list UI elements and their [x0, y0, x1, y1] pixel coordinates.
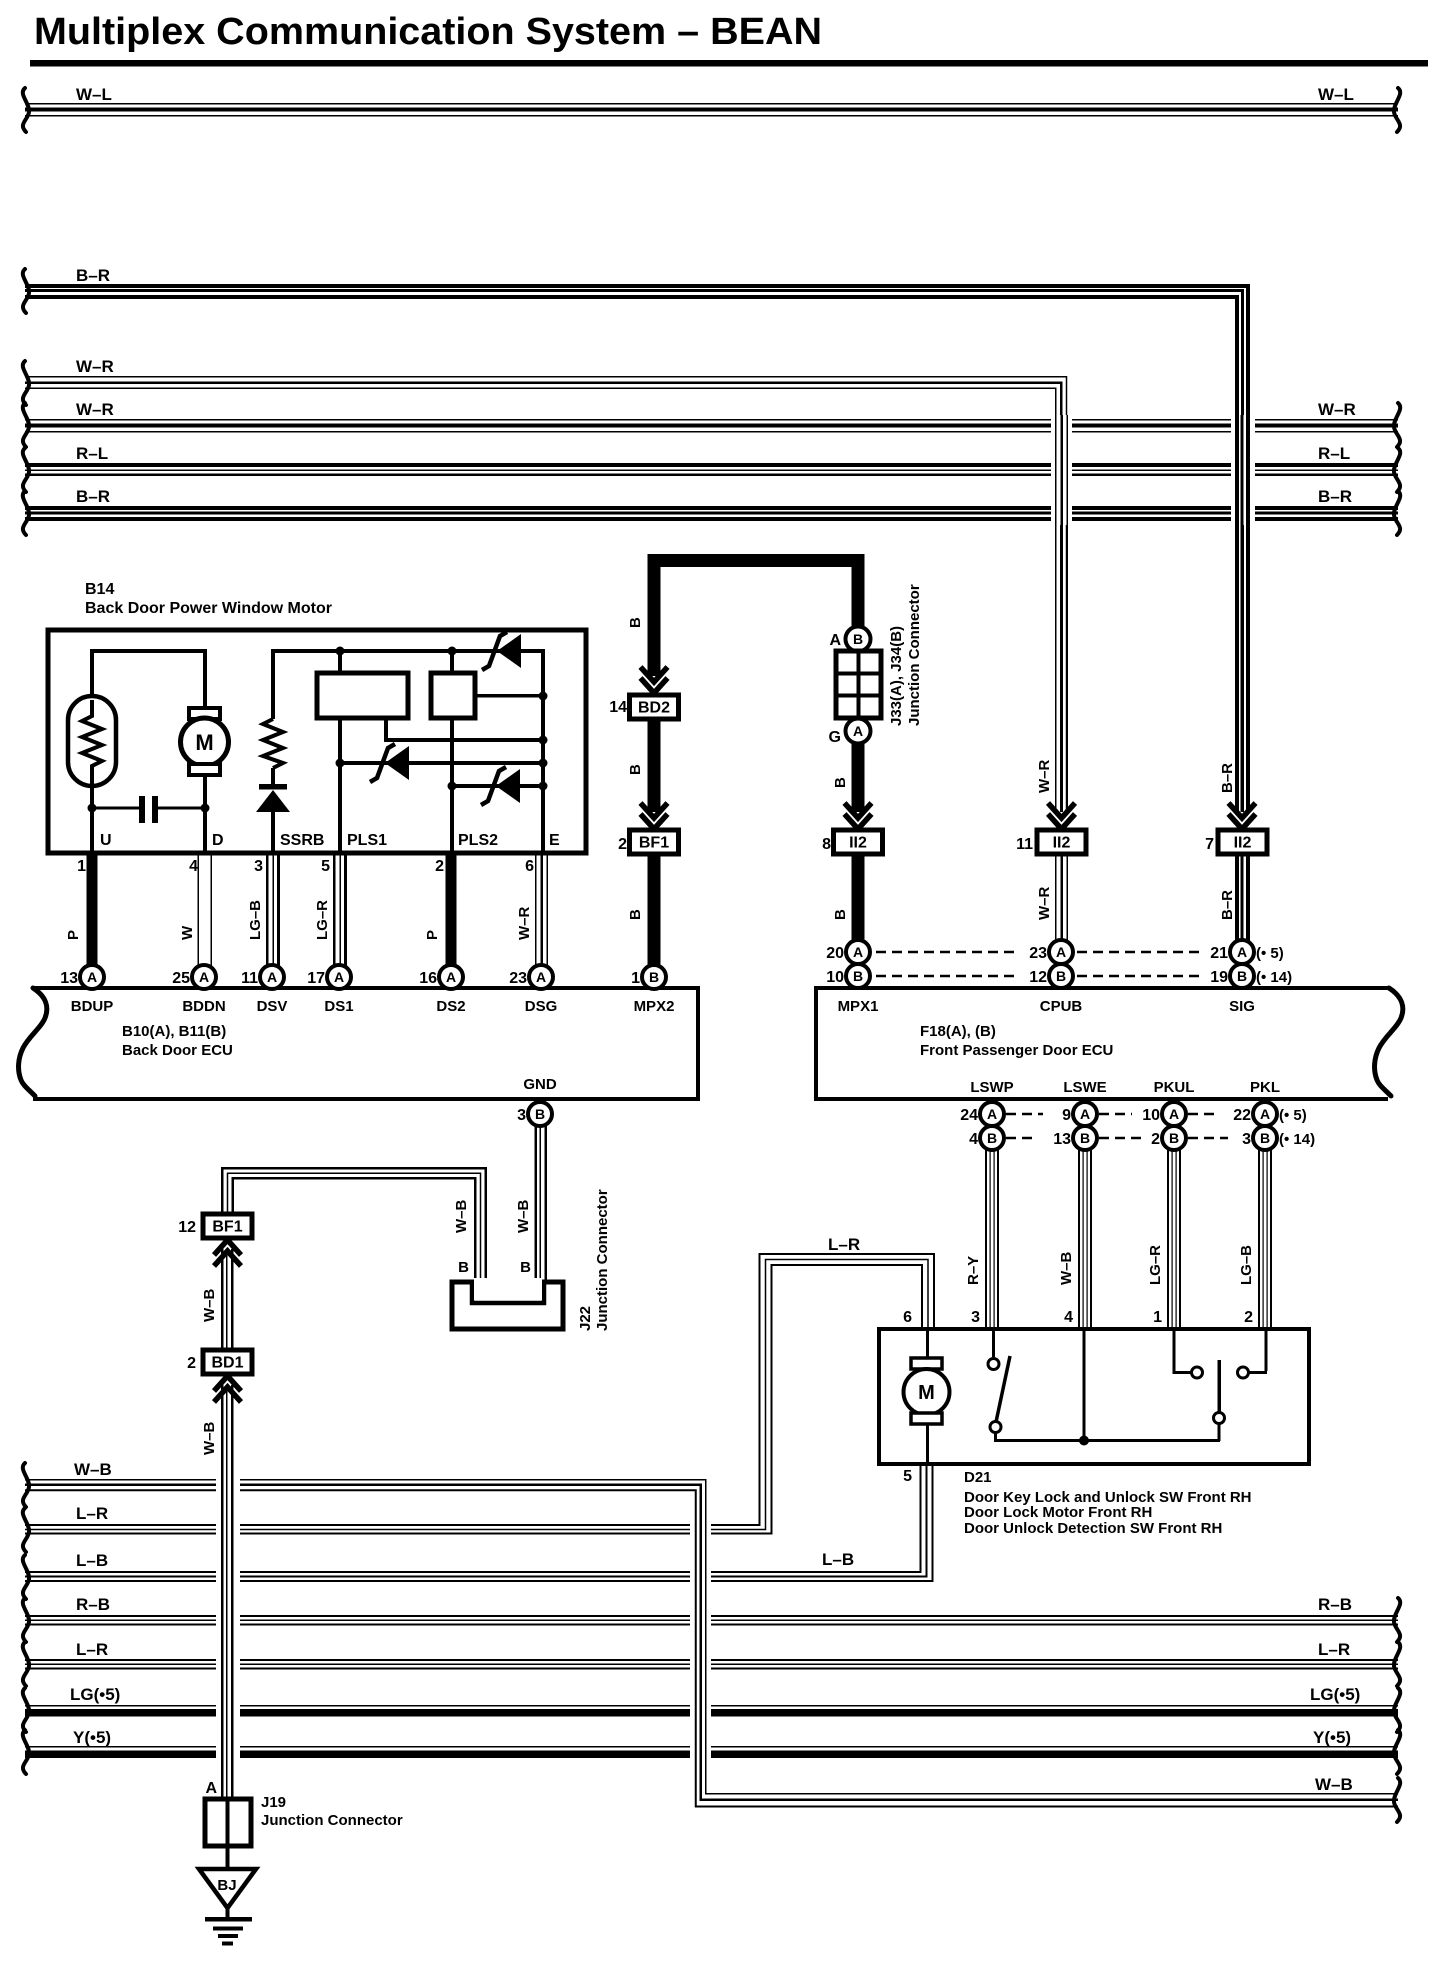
svg-text:DS1: DS1 — [324, 998, 353, 1015]
svg-text:9: 9 — [1062, 1107, 1071, 1124]
svg-text:Junction Connector: Junction Connector — [906, 584, 923, 726]
junction dot PLS1 — [336, 759, 345, 768]
dashed link MPX1-CPUB row B — [876, 975, 1020, 978]
svg-text:M: M — [195, 730, 213, 755]
wire L-B: D21 pin 5 down, turns left into L-B bus — [25, 1464, 921, 1572]
svg-text:W–L: W–L — [1318, 85, 1354, 104]
resistor zigzag inside lamp — [82, 700, 102, 786]
svg-text:B–R: B–R — [1219, 763, 1236, 793]
wire B thick: right vertical down to J33 circle B — [852, 554, 865, 628]
svg-text:L–B: L–B — [76, 1551, 108, 1570]
svg-text:23: 23 — [1029, 945, 1047, 962]
svg-text:Multiplex Communication System: Multiplex Communication System – BEAN — [34, 11, 822, 53]
wire B thick: J33 down to 8 II2 — [852, 743, 865, 812]
svg-text:5: 5 — [321, 858, 330, 875]
svg-text:R–B: R–B — [1318, 1595, 1352, 1614]
svg-text:B: B — [987, 1130, 997, 1146]
svg-text:L–B: L–B — [822, 1550, 854, 1569]
arrow into 8 II2 — [845, 803, 872, 818]
svg-text:MPX2: MPX2 — [634, 998, 675, 1015]
svg-text:A: A — [829, 632, 841, 649]
switch SW2 (unlock detection): pin1 contact — [1173, 1331, 1176, 1371]
wire B-R: 7 II2 down to SIG terminal — [1235, 853, 1239, 943]
wire: resistor to diode — [271, 768, 275, 785]
svg-text:B: B — [832, 909, 849, 920]
svg-text:Y(•5): Y(•5) — [1313, 1728, 1351, 1747]
relay coil box 2 in B14 — [450, 651, 454, 671]
svg-text:R–L: R–L — [76, 444, 108, 463]
svg-text:22: 22 — [1233, 1107, 1251, 1124]
wire W-B: BF1 loop up-over-down to J22 — [222, 1168, 486, 1302]
svg-text:LG–B: LG–B — [1238, 1245, 1255, 1285]
wire R-Y LSWP to D21 pin 3 — [985, 1149, 987, 1329]
wire W-B: BF1 down to BD1 — [221, 1249, 224, 1350]
wire B thick: BF1 down to MPX2 terminal — [648, 853, 661, 968]
svg-text:G: G — [829, 729, 841, 746]
wire B thick: left vertical down to BD2 — [648, 554, 661, 676]
svg-text:R–Y: R–Y — [965, 1256, 982, 1285]
bus wire W-L (top) — [25, 103, 1398, 105]
svg-text:A: A — [536, 969, 546, 985]
svg-text:GND: GND — [523, 1076, 557, 1093]
svg-text:5: 5 — [903, 1468, 912, 1485]
svg-text:W–R: W–R — [1318, 400, 1356, 419]
svg-text:12: 12 — [1029, 969, 1047, 986]
svg-text:24: 24 — [960, 1107, 978, 1124]
svg-text:MPX1: MPX1 — [838, 998, 879, 1015]
svg-text:W–B: W–B — [201, 1289, 218, 1323]
wire: top horizontal U-to-motor inside B14 — [90, 649, 207, 653]
svg-text:II2: II2 — [1053, 835, 1071, 852]
ground symbol — [226, 1908, 230, 1918]
arrow into 14 BD2 — [641, 667, 668, 682]
arrow up into BF1 — [214, 1240, 241, 1255]
svg-text:LSWP: LSWP — [970, 1079, 1013, 1096]
svg-text:2: 2 — [1151, 1131, 1160, 1148]
ECU F18(A),(B) Front Passenger Door ECU box — [814, 986, 1390, 990]
svg-text:B: B — [458, 1259, 469, 1276]
svg-text:B: B — [1237, 968, 1247, 984]
motor M in D21 — [926, 1331, 929, 1360]
svg-text:(• 5): (• 5) — [1279, 1107, 1307, 1124]
wire W-R vertical from first W-R bus down to connector 11 II2 — [1051, 415, 1072, 525]
junction dot U — [88, 804, 97, 813]
svg-text:11: 11 — [241, 970, 258, 987]
svg-text:W–B: W–B — [201, 1422, 218, 1456]
svg-text:LG–B: LG–B — [247, 900, 264, 940]
svg-text:L–R: L–R — [1318, 1640, 1350, 1659]
svg-text:(• 5): (• 5) — [1256, 945, 1284, 962]
svg-text:W–R: W–R — [516, 907, 533, 941]
svg-text:B: B — [1080, 1130, 1090, 1146]
svg-text:CPUB: CPUB — [1040, 998, 1083, 1015]
svg-text:25: 25 — [172, 970, 190, 987]
junction connector J33(A),J34(B) grid box — [836, 651, 881, 718]
bus wire R-B — [25, 1615, 1398, 1617]
svg-text:DSV: DSV — [257, 998, 288, 1015]
svg-text:Junction Connector: Junction Connector — [261, 1812, 403, 1829]
svg-text:B: B — [832, 777, 849, 788]
svg-text:B–R: B–R — [76, 487, 110, 506]
svg-text:J22: J22 — [577, 1306, 594, 1331]
svg-text:D21: D21 — [964, 1469, 992, 1486]
wire: diode to bottom SSRB pin — [271, 812, 275, 853]
svg-text:8: 8 — [822, 836, 831, 853]
bus wire B-R (upper, turns down to II2 pin 7) — [25, 286, 1248, 812]
switch SW2 lever — [1218, 1360, 1222, 1412]
svg-text:19: 19 — [1210, 969, 1228, 986]
svg-text:J33(A), J34(B): J33(A), J34(B) — [888, 626, 905, 726]
svg-text:BDUP: BDUP — [71, 998, 114, 1015]
svg-text:A: A — [199, 969, 209, 985]
svg-text:4: 4 — [189, 858, 198, 875]
dashes LSWE-PKUL — [1099, 1113, 1132, 1116]
wire: SW1 to common junction — [994, 1439, 1220, 1442]
svg-text:A: A — [446, 969, 456, 985]
svg-text:D: D — [212, 832, 224, 849]
svg-text:DS2: DS2 — [436, 998, 465, 1015]
arrow into 7 II2 — [1229, 803, 1256, 818]
svg-text:LG(•5): LG(•5) — [1310, 1685, 1360, 1704]
svg-text:1: 1 — [631, 970, 640, 987]
svg-text:BJ: BJ — [217, 1877, 236, 1894]
svg-text:W–B: W–B — [1315, 1775, 1353, 1794]
motor M in B14 — [203, 649, 207, 710]
svg-text:E: E — [549, 832, 560, 849]
svg-text:A: A — [87, 969, 97, 985]
wire L-R: from bus up and over to D21 pin 6 — [25, 1254, 934, 1525]
svg-text:(• 14): (• 14) — [1279, 1131, 1315, 1148]
wire: U column down into lamp — [90, 649, 94, 700]
capacitor between U and D columns — [92, 807, 139, 810]
wire: E column vertical — [541, 651, 545, 853]
svg-text:2: 2 — [187, 1355, 196, 1372]
ECU B10(A) B11(B) Back Door ECU box — [33, 986, 700, 990]
svg-text:A: A — [334, 969, 344, 985]
svg-text:B: B — [627, 764, 644, 775]
junction connector J19 — [205, 1799, 251, 1846]
switch SW2 second contact — [1238, 1367, 1249, 1378]
svg-text:F18(A), (B): F18(A), (B) — [920, 1023, 996, 1040]
dashed link MPX1-CPUB row A — [876, 951, 1020, 954]
wire LG-R PKUL to D21 pin 1 — [1167, 1149, 1169, 1329]
svg-text:3: 3 — [971, 1309, 980, 1326]
junction connector J22 box — [452, 1282, 563, 1329]
svg-text:1: 1 — [77, 858, 86, 875]
wire: U column lamp to junction — [90, 786, 94, 853]
svg-text:W–R: W–R — [76, 357, 114, 376]
svg-text:10: 10 — [826, 969, 844, 986]
svg-text:13: 13 — [60, 970, 78, 987]
svg-text:A: A — [987, 1106, 997, 1122]
wire: pin 4 down the middle of D21 — [1083, 1331, 1086, 1439]
svg-text:20: 20 — [826, 945, 844, 962]
bus wire B-R (lower) — [25, 506, 1398, 510]
svg-text:4: 4 — [1064, 1309, 1073, 1326]
ground triangle BJ — [199, 1869, 256, 1908]
svg-text:A: A — [1080, 1106, 1090, 1122]
svg-text:Door Unlock Detection SW Front: Door Unlock Detection SW Front RH — [964, 1520, 1222, 1537]
svg-text:LG(•5): LG(•5) — [70, 1685, 120, 1704]
junction dot PLS1 top — [336, 647, 345, 656]
wire W-B LSWE to D21 pin 4 — [1078, 1149, 1080, 1329]
svg-text:II2: II2 — [849, 835, 867, 852]
dashes LSWP-LSWE — [1006, 1113, 1043, 1116]
svg-text:A: A — [1237, 944, 1247, 960]
svg-text:L–R: L–R — [76, 1504, 108, 1523]
svg-text:W–R: W–R — [1036, 887, 1053, 921]
svg-text:B–R: B–R — [1219, 890, 1236, 920]
svg-text:2: 2 — [1244, 1309, 1253, 1326]
svg-text:W–B: W–B — [1058, 1252, 1075, 1286]
svg-text:BD1: BD1 — [211, 1355, 243, 1372]
wire B-R vertical from upper B-R bus down to connector 7 II2 — [1231, 415, 1255, 525]
bus wire R-L — [25, 463, 1398, 467]
junction dot zener middle at E — [539, 759, 548, 768]
svg-text:4: 4 — [969, 1131, 978, 1148]
junction dot on E column (696) — [539, 692, 548, 701]
svg-text:P: P — [424, 930, 441, 940]
svg-text:1: 1 — [1153, 1309, 1162, 1326]
bus wire W-R (second) — [25, 419, 1398, 421]
dashes PKUL-PKL — [1188, 1113, 1218, 1116]
svg-text:10: 10 — [1142, 1107, 1160, 1124]
wire W-B: left bus, down link, bottom-right bus (Z route) — [690, 1516, 711, 1764]
switch SW1 (door key lock/unlock): pin3 contact — [992, 1331, 995, 1357]
junction dot in D21 — [1079, 1436, 1089, 1446]
junction dot zener lower at E — [539, 782, 548, 791]
switch SW1 lower contact — [990, 1422, 1001, 1433]
svg-text:13: 13 — [1053, 1131, 1071, 1148]
wire B thick: BD2 to BF1 — [648, 719, 661, 812]
arrow into 11 II2 — [1048, 803, 1075, 818]
svg-text:B: B — [535, 1106, 545, 1122]
wire: top horizontal SSRB-to-E inside B14 — [271, 649, 545, 653]
svg-text:21: 21 — [1210, 945, 1228, 962]
svg-text:PKL: PKL — [1250, 1079, 1280, 1096]
svg-text:B: B — [649, 969, 659, 985]
diode SSRB (cathode bar up, triangle up) — [259, 784, 287, 790]
svg-text:2: 2 — [435, 858, 444, 875]
svg-text:Back Door ECU: Back Door ECU — [122, 1042, 233, 1059]
svg-text:W–R: W–R — [76, 400, 114, 419]
arrow up into BD1 — [214, 1376, 241, 1391]
dashed link CPUB-SIG row B — [1077, 975, 1200, 978]
wire: relay1 bottom-left to PLS1 pin — [338, 720, 342, 853]
svg-text:A: A — [205, 1780, 217, 1797]
svg-text:M: M — [918, 1382, 935, 1404]
svg-text:W–B: W–B — [515, 1200, 532, 1234]
junction dot D — [201, 804, 210, 813]
svg-text:J19: J19 — [261, 1794, 286, 1811]
component D21 box (door lock motor / switches) — [879, 1329, 1309, 1464]
svg-text:PLS1: PLS1 — [347, 832, 387, 849]
svg-text:PLS2: PLS2 — [458, 832, 498, 849]
svg-text:R–B: R–B — [76, 1595, 110, 1614]
svg-text:BF1: BF1 — [212, 1219, 242, 1236]
svg-text:3: 3 — [1242, 1131, 1251, 1148]
svg-text:6: 6 — [903, 1309, 912, 1326]
svg-text:3: 3 — [517, 1107, 526, 1124]
zener diode lower right (PLS2 line) — [452, 784, 543, 788]
svg-text:Door Lock Motor Front RH: Door Lock Motor Front RH — [964, 1504, 1152, 1521]
svg-text:23: 23 — [509, 970, 527, 987]
zener diode top right (on SSRB-E line) — [497, 634, 521, 668]
svg-text:P: P — [65, 930, 82, 940]
wire: relay1 bottom-right jog to E column — [384, 720, 388, 738]
svg-text:SSRB: SSRB — [280, 832, 324, 849]
svg-text:W–B: W–B — [453, 1200, 470, 1234]
svg-text:W: W — [179, 925, 196, 940]
svg-text:2: 2 — [618, 836, 627, 853]
svg-text:3: 3 — [254, 858, 263, 875]
svg-text:L–R: L–R — [828, 1235, 860, 1254]
svg-text:17: 17 — [307, 970, 325, 987]
svg-text:11: 11 — [1016, 836, 1033, 853]
svg-text:6: 6 — [525, 858, 534, 875]
svg-text:B: B — [1056, 968, 1066, 984]
wire B thick: horizontal top segment — [648, 554, 865, 567]
svg-text:B: B — [520, 1259, 531, 1276]
svg-text:Back Door Power Window Motor: Back Door Power Window Motor — [85, 600, 332, 617]
svg-text:14: 14 — [609, 699, 627, 716]
svg-text:A: A — [853, 944, 863, 960]
resistor SSRB zigzag — [263, 719, 283, 768]
wire: J19 to BJ ground triangle — [226, 1846, 230, 1869]
relay coil box 1 in B14 — [338, 651, 342, 671]
svg-text:A: A — [1260, 1106, 1270, 1122]
svg-text:SIG: SIG — [1229, 998, 1255, 1015]
svg-text:W–L: W–L — [76, 85, 112, 104]
svg-text:B: B — [1260, 1130, 1270, 1146]
svg-text:L–R: L–R — [76, 1640, 108, 1659]
svg-text:Junction Connector: Junction Connector — [594, 1189, 611, 1331]
svg-text:B14: B14 — [85, 581, 114, 598]
svg-text:B10(A), B11(B): B10(A), B11(B) — [122, 1023, 226, 1040]
svg-text:B–R: B–R — [76, 266, 110, 285]
svg-text:7: 7 — [1205, 836, 1214, 853]
wire W-B: GND down to J22 — [535, 1125, 538, 1302]
svg-text:12: 12 — [178, 1219, 196, 1236]
bus wire Y(.5) — [25, 1746, 1398, 1748]
wire: relay2 right to E column — [477, 694, 545, 698]
svg-text:PKUL: PKUL — [1154, 1079, 1195, 1096]
svg-text:B: B — [853, 631, 863, 647]
wire LG-B PKL to D21 pin 2 — [1258, 1149, 1260, 1329]
svg-text:B: B — [853, 968, 863, 984]
junction dot PLS2 top — [448, 647, 457, 656]
zener diode middle (PLS1 line) — [340, 761, 543, 765]
svg-text:DSG: DSG — [525, 998, 558, 1015]
svg-text:BF1: BF1 — [639, 835, 669, 852]
lamp / circuit breaker oval — [68, 696, 116, 786]
svg-text:A: A — [853, 723, 863, 739]
svg-text:B–R: B–R — [1318, 487, 1352, 506]
svg-text:BD2: BD2 — [638, 700, 670, 717]
svg-text:B: B — [627, 617, 644, 628]
bus wire L-R (lower) — [25, 1659, 1398, 1661]
wire: SSRB column to resistor — [271, 649, 275, 719]
svg-text:B: B — [627, 909, 644, 920]
dashed link CPUB-SIG row A — [1077, 951, 1200, 954]
junction dot on E column (738) — [539, 736, 548, 745]
switch SW1 lever — [996, 1356, 1010, 1422]
wire B thick: 8 II2 down to MPX1 terminal — [852, 853, 865, 944]
svg-text:16: 16 — [419, 970, 437, 987]
svg-text:R–L: R–L — [1318, 444, 1350, 463]
svg-text:LG–R: LG–R — [1147, 1245, 1164, 1285]
svg-text:A: A — [267, 969, 277, 985]
wire: relay2 bottom to PLS2 pin — [450, 718, 454, 853]
svg-text:U: U — [100, 832, 112, 849]
svg-text:B: B — [1169, 1130, 1179, 1146]
svg-text:(• 14): (• 14) — [1256, 969, 1292, 986]
bus wire W-R (first, turns down to II2 pin 11) — [25, 377, 1067, 812]
wire W-R: 11 II2 down to CPUB terminal — [1055, 853, 1057, 943]
svg-text:A: A — [1056, 944, 1066, 960]
bus wire LG(.5) — [25, 1705, 1398, 1707]
svg-text:W–B: W–B — [74, 1460, 112, 1479]
svg-text:BDDN: BDDN — [182, 998, 225, 1015]
svg-text:Front Passenger Door ECU: Front Passenger Door ECU — [920, 1042, 1113, 1059]
svg-text:W–R: W–R — [1036, 760, 1053, 794]
wire W-B: BD1 down to J19 (crosses buses) — [216, 1471, 240, 1761]
svg-text:A: A — [1169, 1106, 1179, 1122]
junction dot PLS2 — [448, 782, 457, 791]
svg-text:LG–R: LG–R — [314, 900, 331, 940]
svg-text:Y(•5): Y(•5) — [73, 1728, 111, 1747]
svg-text:II2: II2 — [1234, 835, 1252, 852]
arrow into 2 BF1 — [641, 803, 668, 818]
svg-text:LSWE: LSWE — [1063, 1079, 1106, 1096]
